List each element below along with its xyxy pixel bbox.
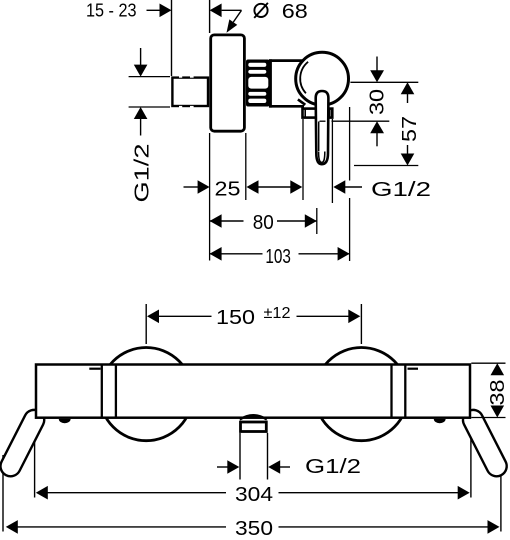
extension line bar left <box>34 418 36 498</box>
extension line escutcheon left below <box>209 133 211 261</box>
valve body <box>272 62 312 105</box>
svg-text:25: 25 <box>215 179 241 201</box>
notch below circle <box>298 99 305 104</box>
down arrow to nipple top <box>140 48 142 65</box>
handle escutcheon circle <box>296 52 349 105</box>
svg-text:304: 304 <box>235 484 273 506</box>
dimension 15-23 right arrow <box>210 4 222 18</box>
right escutcheon circle <box>315 348 408 441</box>
svg-text:G1/2: G1/2 <box>305 456 361 478</box>
extension line leg left <box>2 455 4 532</box>
38 up arrow <box>491 363 505 375</box>
bar seam lines <box>101 365 103 418</box>
80 dimension <box>210 214 222 228</box>
dim line y82 <box>350 81 418 83</box>
svg-text:G1/2: G1/2 <box>371 179 431 201</box>
svg-text:80: 80 <box>253 212 274 234</box>
crescent highlight arc <box>300 62 308 94</box>
left wall union leg <box>0 406 48 479</box>
thread tick marks <box>179 76 182 78</box>
svg-text:57: 57 <box>399 116 421 142</box>
svg-text:15 - 23: 15 - 23 <box>86 0 137 20</box>
G1/2 outlet arrows <box>217 466 228 468</box>
57 down arrow <box>407 145 409 155</box>
extension line bar right <box>470 418 472 498</box>
svg-text:68: 68 <box>282 1 308 23</box>
mixer bar body <box>36 365 470 418</box>
outlet tube lines <box>239 433 241 480</box>
extension line escutcheon face <box>209 0 211 33</box>
dim line y121 <box>320 120 326 122</box>
lever handle <box>316 91 329 164</box>
lever inner left line <box>318 122 320 152</box>
extension line circle right <box>349 107 351 181</box>
small union shadows under bar <box>59 419 71 423</box>
extension line leg right <box>500 455 502 532</box>
30 down arrow <box>376 57 378 72</box>
30 up arrow <box>370 121 384 133</box>
right wall union leg <box>460 406 510 479</box>
svg-text:30: 30 <box>367 89 389 115</box>
wall escutcheon (seen from side) <box>211 35 245 131</box>
57 up arrow <box>401 82 415 94</box>
dim line y165 <box>354 165 418 167</box>
extension line right circle centre <box>360 304 362 344</box>
lever inner tip arc <box>319 152 325 163</box>
304 dimension <box>36 486 48 500</box>
dimension 15-23 left arrow <box>147 9 161 11</box>
svg-text:103: 103 <box>265 246 291 268</box>
25 row: left outside arrow <box>184 186 199 188</box>
wall supply nipple G1/2 <box>172 78 208 106</box>
38 dimension lines <box>471 362 505 364</box>
350 dimension <box>6 520 18 534</box>
103 dimension <box>210 247 222 261</box>
double arrow between 245.8 and 303 <box>247 180 259 194</box>
leader line for diameter 68 <box>233 10 241 22</box>
extension line wall face <box>171 0 173 76</box>
150 dimension <box>147 310 159 324</box>
outlet dome <box>240 415 267 419</box>
up arrow to nipple bottom <box>134 107 148 119</box>
extension line body right <box>302 119 304 200</box>
union nut with ribs <box>246 60 270 107</box>
svg-text:±12: ±12 <box>264 305 291 322</box>
svg-text:150: 150 <box>216 307 255 329</box>
extension line left circle centre <box>145 304 147 344</box>
svg-text:38: 38 <box>487 380 509 406</box>
G1/2 nipple dimension lines <box>129 76 170 78</box>
label diameter 68 <box>254 4 267 17</box>
G1/2 left arrow (top view) <box>333 180 345 194</box>
outlet block below circle <box>303 109 333 118</box>
svg-text:350: 350 <box>235 518 273 540</box>
outlet nut <box>241 422 267 432</box>
38 down arrow <box>491 406 505 418</box>
svg-text:G1/2: G1/2 <box>132 144 154 203</box>
bar tick marks <box>89 368 100 370</box>
left escutcheon circle <box>100 348 193 441</box>
extension line 80 end <box>316 208 318 234</box>
extension line escutcheon right below <box>245 133 247 200</box>
extension line outlet right <box>331 119 333 203</box>
